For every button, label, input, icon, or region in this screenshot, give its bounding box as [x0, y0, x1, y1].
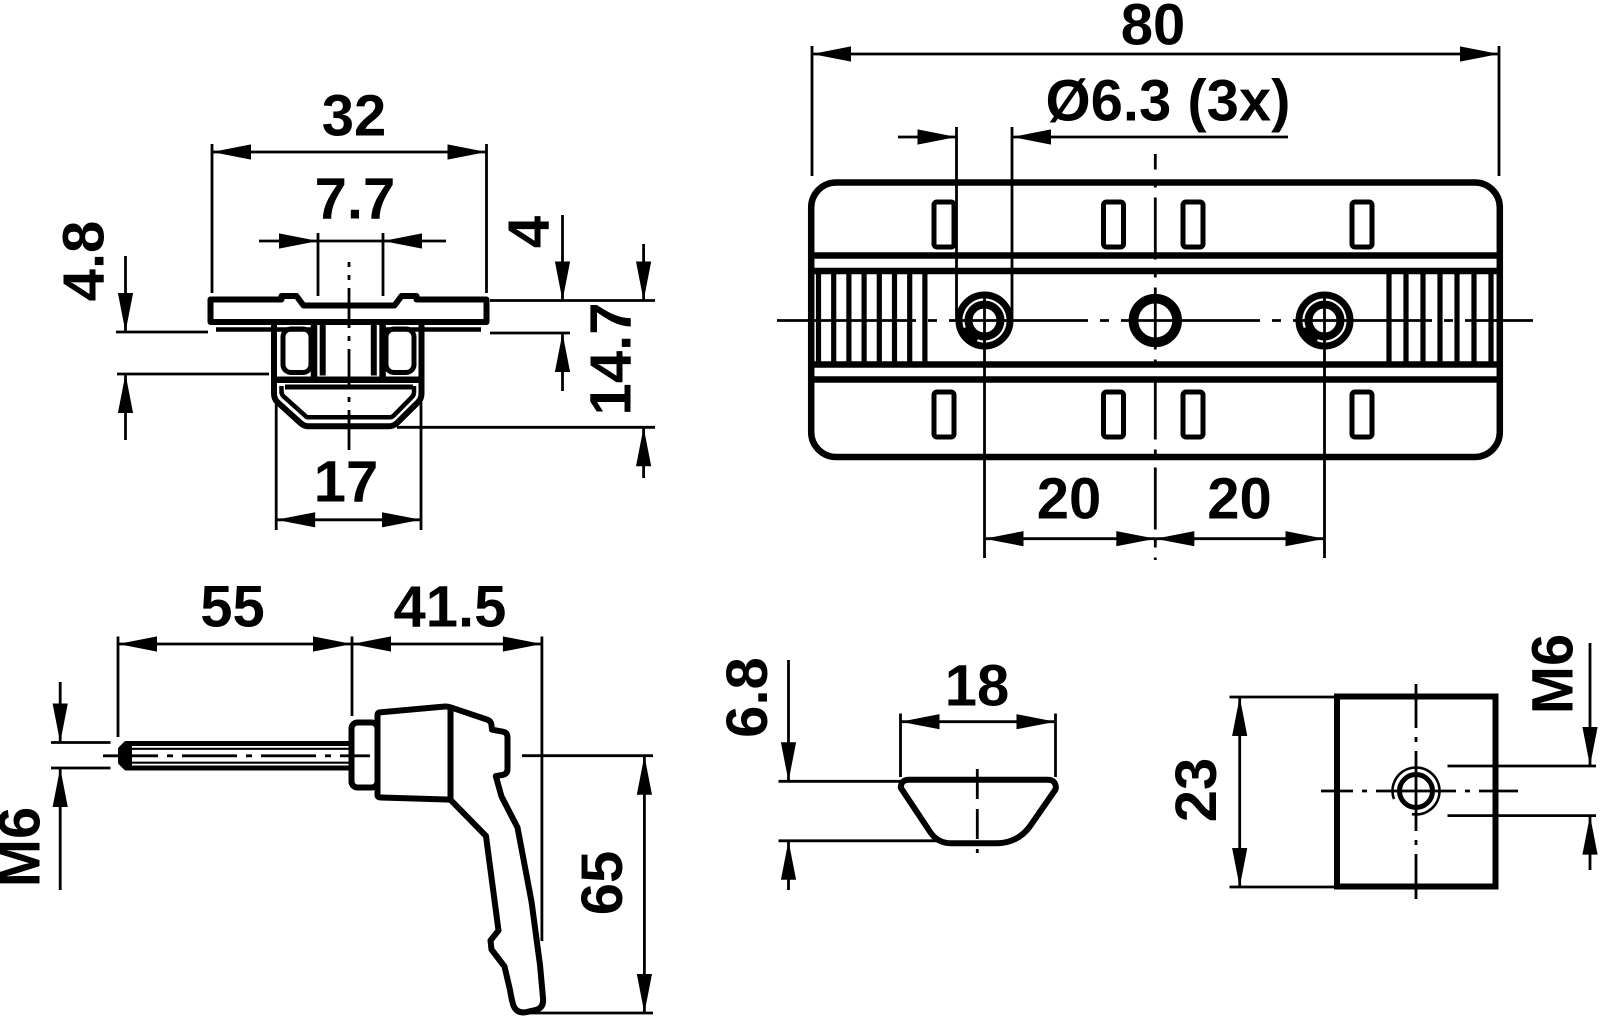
dimension 14.7	[397, 244, 655, 478]
profile vertical center line	[348, 262, 351, 450]
plate bottom slot 2	[1104, 392, 1124, 437]
dimension 55	[118, 575, 352, 738]
hole 1 axis line	[983, 294, 986, 558]
nut tapped hole	[1400, 775, 1433, 808]
svg-text:M6: M6	[0, 807, 53, 888]
profile foot inner contour	[282, 386, 415, 417]
dimension diameter 6.3 (3x)	[898, 69, 1291, 320]
hole 3 axis line	[1323, 294, 1326, 558]
dimension 4	[490, 215, 655, 391]
nut body outline	[1337, 697, 1496, 887]
dimension M6 stud	[0, 682, 111, 890]
slot nut center line	[976, 769, 979, 853]
profile box bottom wall inner line	[285, 385, 413, 390]
dimension 65	[519, 756, 653, 1013]
profile stem wall right outer line	[379, 322, 386, 379]
nut vertical center line	[1415, 684, 1418, 899]
svg-text:14.7: 14.7	[579, 303, 644, 416]
lever threaded stud	[121, 744, 355, 769]
dimension 80	[812, 0, 1499, 176]
svg-text:23: 23	[1164, 758, 1229, 823]
stud center line	[103, 754, 370, 757]
hole 3 thread relief arc	[1304, 299, 1346, 341]
svg-text:80: 80	[1121, 0, 1186, 58]
plate top slot 2	[1104, 202, 1124, 247]
dimension 20 right	[1155, 467, 1324, 547]
nut thread arc	[1393, 767, 1440, 814]
plate left knurl hatch	[819, 273, 925, 363]
stud chamfered tip	[119, 741, 133, 771]
hole 1 counterbore ring	[964, 300, 1005, 341]
dimension M6 nut	[1448, 634, 1598, 870]
plate bottom slot 3	[1183, 392, 1203, 437]
nut horizontal center line	[1321, 790, 1518, 793]
dimension 18	[901, 654, 1056, 778]
hole 3 counterbore ring	[1304, 300, 1345, 341]
slot nut outline	[901, 780, 1056, 844]
dimension 7.7	[259, 167, 446, 297]
svg-text:18: 18	[945, 654, 1010, 719]
dimension 17	[276, 402, 421, 530]
plate channel line 3	[814, 361, 1497, 368]
plate horizontal center line	[777, 319, 1533, 322]
dimension 4.8	[52, 221, 270, 440]
profile box bottom wall outer line	[277, 377, 421, 384]
dimension 20 left	[985, 467, 1156, 547]
plate channel line 4	[814, 376, 1497, 383]
svg-text:Ø6.3 (3x): Ø6.3 (3x)	[1046, 69, 1291, 134]
profile box and foot outer contour	[274, 324, 422, 426]
svg-text:7.7: 7.7	[315, 167, 396, 232]
svg-text:32: 32	[322, 84, 387, 149]
plate channel line 2	[814, 268, 1497, 275]
profile stem wall right inner line	[371, 322, 377, 376]
plate top slot 4	[1352, 202, 1372, 247]
plate top slot 3	[1183, 202, 1203, 247]
dimension 6.8	[715, 657, 942, 890]
svg-text:55: 55	[200, 575, 265, 640]
profile flange bottom inner line left	[216, 327, 312, 332]
svg-text:41.5: 41.5	[394, 575, 507, 640]
profile flange bottom inner line right	[384, 327, 481, 332]
lever head and handle arm outline	[378, 706, 544, 1012]
svg-text:65: 65	[570, 851, 635, 916]
plate vertical center line	[1154, 154, 1157, 560]
lever head face edge line	[448, 709, 454, 799]
plate bottom slot 4	[1352, 392, 1372, 437]
dimension 32	[212, 84, 487, 294]
profile right cavity pocket	[386, 329, 414, 373]
profile left cavity pocket	[283, 329, 311, 373]
hole 2 center bore	[1134, 299, 1178, 343]
svg-text:4.8: 4.8	[52, 221, 117, 302]
profile stem wall left inner line	[320, 322, 326, 376]
dimension 41.5	[352, 575, 542, 942]
svg-text:4: 4	[497, 216, 562, 248]
svg-text:17: 17	[314, 450, 379, 515]
svg-text:M6: M6	[1521, 634, 1586, 715]
plate right knurl hatch	[1389, 273, 1491, 363]
stud thread line bottom	[127, 762, 350, 764]
lever collar sleeve	[352, 723, 378, 788]
plate outline	[811, 183, 1500, 458]
hole 1 thread relief arc	[964, 299, 1006, 341]
plate channel line 1	[814, 252, 1497, 259]
svg-text:20: 20	[1207, 467, 1272, 532]
stud thread line top	[127, 748, 350, 750]
svg-text:20: 20	[1037, 467, 1102, 532]
plate bottom slot 1	[934, 392, 954, 437]
profile flange outline	[211, 296, 487, 322]
svg-text:6.8: 6.8	[715, 657, 780, 738]
dimension 23	[1164, 697, 1338, 887]
profile stem wall left outer line	[311, 322, 318, 379]
plate top slot 1	[934, 202, 954, 247]
